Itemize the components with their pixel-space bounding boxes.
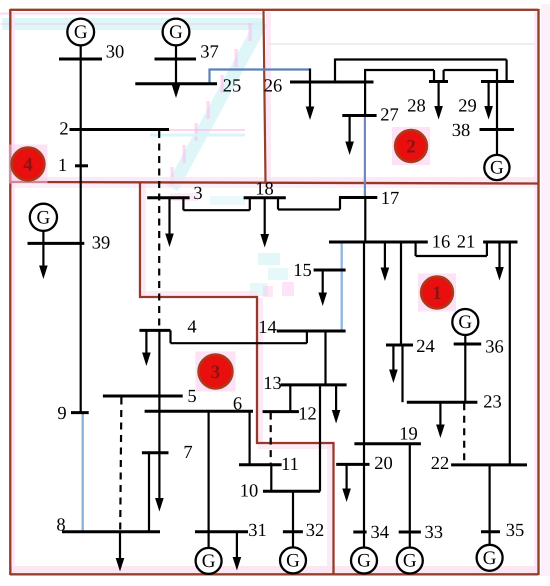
svg-text:27: 27 bbox=[380, 106, 399, 126]
svg-text:29: 29 bbox=[458, 97, 477, 117]
svg-text:4: 4 bbox=[23, 155, 33, 176]
svg-text:12: 12 bbox=[298, 404, 317, 424]
svg-text:1: 1 bbox=[58, 156, 67, 176]
svg-text:25: 25 bbox=[223, 77, 242, 97]
svg-text:39: 39 bbox=[92, 233, 111, 253]
svg-text:31: 31 bbox=[248, 521, 267, 541]
svg-text:28: 28 bbox=[407, 97, 426, 117]
svg-text:G: G bbox=[74, 22, 88, 43]
svg-text:32: 32 bbox=[306, 521, 325, 541]
svg-text:26: 26 bbox=[264, 77, 283, 97]
svg-text:G: G bbox=[490, 158, 504, 179]
svg-text:3: 3 bbox=[211, 362, 221, 383]
svg-text:38: 38 bbox=[452, 121, 471, 141]
svg-text:G: G bbox=[202, 551, 216, 572]
svg-text:14: 14 bbox=[258, 318, 277, 338]
svg-text:1: 1 bbox=[432, 283, 442, 304]
svg-text:11: 11 bbox=[281, 455, 299, 475]
svg-text:22: 22 bbox=[431, 454, 450, 474]
svg-text:37: 37 bbox=[200, 43, 219, 63]
svg-text:10: 10 bbox=[240, 482, 259, 502]
svg-text:2: 2 bbox=[59, 120, 68, 140]
svg-text:33: 33 bbox=[425, 523, 444, 543]
svg-text:30: 30 bbox=[106, 43, 125, 63]
svg-text:15: 15 bbox=[293, 261, 312, 281]
svg-text:13: 13 bbox=[263, 374, 282, 394]
svg-text:18: 18 bbox=[255, 180, 274, 200]
svg-text:G: G bbox=[37, 208, 51, 229]
svg-text:36: 36 bbox=[485, 338, 504, 358]
svg-text:G: G bbox=[357, 551, 371, 572]
svg-text:20: 20 bbox=[374, 454, 393, 474]
svg-text:G: G bbox=[483, 548, 497, 569]
svg-text:G: G bbox=[286, 551, 300, 572]
svg-text:G: G bbox=[458, 312, 472, 333]
svg-text:34: 34 bbox=[371, 523, 390, 543]
svg-text:3: 3 bbox=[193, 184, 202, 204]
svg-text:24: 24 bbox=[416, 337, 435, 357]
svg-text:19: 19 bbox=[399, 425, 418, 445]
svg-text:17: 17 bbox=[381, 189, 400, 209]
svg-text:7: 7 bbox=[183, 443, 192, 463]
svg-text:35: 35 bbox=[506, 521, 525, 541]
svg-text:G: G bbox=[169, 22, 183, 43]
svg-text:9: 9 bbox=[57, 404, 66, 424]
svg-text:5: 5 bbox=[187, 387, 196, 407]
svg-text:G: G bbox=[403, 551, 417, 572]
svg-text:4: 4 bbox=[187, 318, 196, 338]
svg-text:16: 16 bbox=[432, 233, 451, 253]
svg-text:21: 21 bbox=[457, 233, 476, 253]
svg-text:2: 2 bbox=[406, 137, 416, 158]
svg-text:8: 8 bbox=[56, 516, 65, 536]
svg-text:6: 6 bbox=[233, 395, 242, 415]
svg-text:23: 23 bbox=[483, 393, 502, 413]
